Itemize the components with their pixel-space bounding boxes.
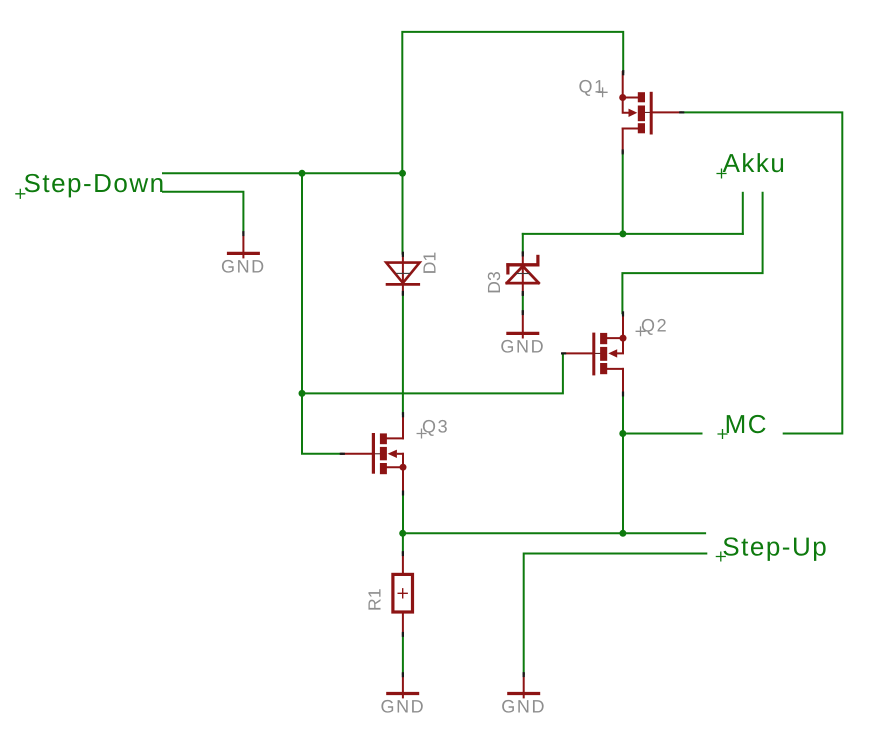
svg-text:GND: GND bbox=[221, 257, 266, 277]
pin tick D1 top bbox=[402, 253, 404, 256]
resistor R1 bbox=[393, 553, 413, 634]
wire D3 to GND bbox=[522, 294, 524, 312]
wire to Q3 gate bbox=[302, 393, 342, 453]
transistor Q2 (mirrored MOSFET mid right) bbox=[563, 313, 626, 394]
junction node at Step-Down / x302 bbox=[299, 170, 306, 177]
wire Step-Up lower line to GND bbox=[524, 554, 707, 675]
ground under Step-Up line bbox=[507, 674, 540, 697]
pin tick R1 bottom bbox=[402, 633, 404, 636]
wire Akku pin 1 bbox=[742, 193, 744, 234]
junction node at Step-Down / D1 column bbox=[399, 170, 406, 177]
zener diode D3 bbox=[505, 253, 539, 294]
svg-text:GND: GND bbox=[500, 336, 545, 356]
wire Q2 drain down through MC node to Step-Up node bbox=[622, 394, 624, 533]
wire Q1 drain down to junction bbox=[622, 152, 624, 234]
wire Q1 gate to right edge down to MC bbox=[681, 112, 842, 433]
pin tick D3 bottom bbox=[522, 292, 524, 295]
pin tick ground 2 bbox=[522, 311, 524, 314]
origin cross Q2 bbox=[636, 327, 645, 336]
transistor Q1 (P-MOSFET top right) bbox=[619, 72, 681, 152]
wire Step-Down upper line bbox=[163, 172, 403, 174]
wire down to D3 anode bbox=[522, 234, 524, 253]
wire to Q2 gate bbox=[302, 354, 563, 394]
svg-text:D1: D1 bbox=[419, 252, 439, 275]
wire from upper junction down to D1 bbox=[402, 173, 404, 253]
pin tick D3 top bbox=[522, 252, 524, 255]
pin tick Q3 drain top bbox=[402, 413, 404, 416]
origin cross MC bbox=[718, 430, 727, 439]
wire top loop from D1 column to Q1 source bbox=[402, 32, 623, 173]
pin tick ground 1 bbox=[242, 232, 244, 235]
wire Step-Down lower line to GND bbox=[163, 192, 243, 233]
svg-text:Akku: Akku bbox=[723, 148, 787, 178]
wire MC left segment bbox=[623, 433, 702, 435]
svg-text:GND: GND bbox=[380, 697, 425, 717]
ground under Step-Down bbox=[227, 233, 260, 258]
origin cross Q3 bbox=[417, 429, 426, 438]
origin cross Akku bbox=[717, 169, 726, 178]
diode D1 bbox=[386, 254, 420, 294]
wire vertical from Step-Down junction down bbox=[301, 173, 303, 393]
pin tick Q2 source top bbox=[622, 312, 624, 315]
origin cross Step-Up bbox=[716, 552, 725, 561]
pin tick Q1 gate right bbox=[680, 111, 683, 113]
pin tick Q1 source top bbox=[622, 71, 624, 74]
junction node Step-Up net at R1 column bbox=[399, 530, 406, 537]
wire junction to R1 bbox=[402, 533, 404, 553]
origin cross D1 bbox=[397, 272, 410, 274]
junction node gate net at x302 bbox=[299, 390, 306, 397]
wire Akku pin 2 to Q2 source bbox=[622, 193, 762, 313]
svg-text:Q2: Q2 bbox=[641, 316, 668, 336]
transistor Q3 (mirrored MOSFET lower left) bbox=[342, 414, 407, 493]
pin tick Q2 drain bottom bbox=[622, 393, 624, 396]
svg-text:GND: GND bbox=[501, 697, 546, 717]
ground under R1 bbox=[386, 674, 419, 697]
pin tick Q3 source bottom bbox=[402, 492, 404, 495]
svg-text:Q1: Q1 bbox=[579, 76, 606, 96]
junction node Akku net below Q1 bbox=[619, 230, 626, 237]
origin cross D3 bbox=[517, 273, 530, 275]
wire D1 cathode to Q3 drain bbox=[402, 294, 404, 414]
origin cross Step-Down bbox=[16, 189, 25, 198]
svg-text:MC: MC bbox=[725, 409, 768, 439]
origin cross Q1 bbox=[598, 88, 607, 97]
svg-text:R1: R1 bbox=[364, 588, 384, 611]
pin tick Q3 gate left bbox=[341, 453, 344, 455]
pin tick ground 4 bbox=[523, 673, 525, 676]
svg-text:D3: D3 bbox=[484, 271, 504, 294]
svg-text:Step-Up: Step-Up bbox=[722, 531, 828, 561]
pin tick Q1 drain bottom bbox=[622, 151, 624, 154]
junction node Step-Up net at Q2 column bbox=[619, 530, 626, 537]
pin tick R1 top bbox=[402, 552, 404, 555]
junction node MC net bbox=[619, 430, 626, 437]
pin tick ground 3 bbox=[402, 673, 404, 676]
ground under D3 bbox=[506, 312, 539, 338]
pin tick D1 bottom bbox=[402, 292, 404, 295]
wire Q3 source to Step-Up junction bbox=[402, 493, 404, 533]
pin tick Q2 gate left bbox=[562, 352, 565, 354]
svg-text:Step-Down: Step-Down bbox=[24, 168, 166, 198]
wire Step-Up upper line bbox=[403, 532, 705, 534]
wire R1 to GND bbox=[402, 634, 404, 674]
wire Akku horizontal to D3 bbox=[523, 233, 743, 235]
